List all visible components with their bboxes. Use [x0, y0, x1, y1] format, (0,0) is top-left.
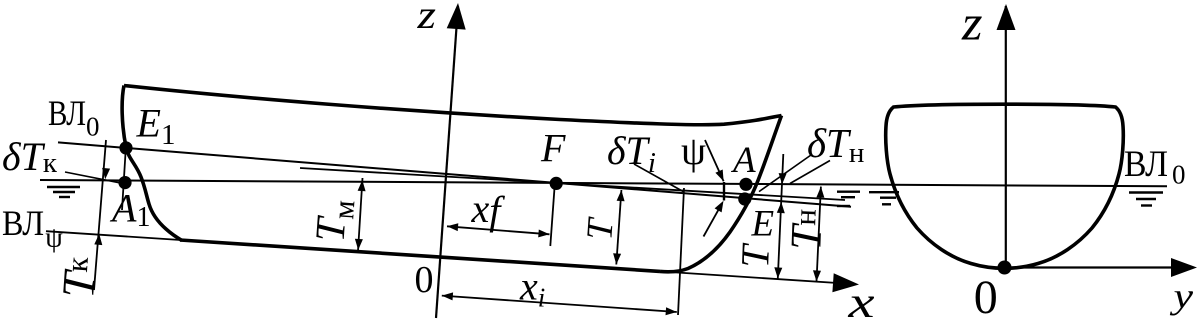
point A1: [118, 176, 131, 189]
dT_n leader 1: [759, 155, 811, 192]
svg-text:0: 0: [1172, 160, 1186, 190]
dT_k leader to A1: [65, 172, 119, 183]
x_i right arrowhead: [666, 307, 677, 315]
z axis (right): [1005, 6, 1007, 268]
x_i left arrowhead: [442, 292, 453, 300]
svg-text:A: A: [730, 140, 756, 181]
earth symbol far right: [1129, 193, 1163, 206]
x_f left arrowhead: [447, 223, 458, 231]
earth symbol left: [47, 187, 80, 197]
dT_n down arrowhead on water: [779, 173, 787, 184]
VL0 line (initial waterline through E1, F, E): [58, 142, 851, 206]
earth symbol mid-right: [869, 192, 899, 204]
angle arrow head: [715, 201, 724, 213]
svg-text:0: 0: [974, 271, 998, 320]
svg-text:0: 0: [415, 259, 434, 301]
point E: [738, 192, 751, 205]
T_n down arrowhead: [813, 270, 821, 281]
T down arrowhead: [613, 253, 621, 264]
svg-text:xf: xf: [471, 186, 506, 233]
aft perpendicular segment E1-A1: [122, 145, 126, 210]
T_m dimension line: [358, 178, 363, 251]
x axis arrowhead: [832, 273, 859, 292]
x_i dimension line: [442, 296, 677, 312]
F extension line down: [550, 188, 554, 246]
hull bow contour: [660, 116, 782, 272]
point A: [739, 178, 752, 191]
T dimension line (station i): [616, 190, 621, 265]
svg-text:ВЛ: ВЛ: [48, 93, 86, 133]
section hull outline: [886, 104, 1124, 268]
dT_n up arrowhead on VL0: [777, 202, 785, 213]
svg-text:z: z: [416, 0, 436, 37]
T bow bottom arrowhead on x axis: [774, 267, 782, 278]
svg-text:0: 0: [86, 112, 100, 142]
psi arrowhead: [715, 170, 723, 182]
psi leader: [705, 140, 724, 181]
earth symbol mid-left (end of main water line): [837, 192, 860, 206]
y axis: [1004, 266, 1173, 268]
svg-text:ψ: ψ: [45, 223, 63, 254]
svg-text:ВЛ: ВЛ: [2, 203, 44, 243]
x_f right arrowhead: [538, 230, 549, 238]
x axis / baseline (thin, full span under keel): [46, 231, 845, 283]
hull deck line: [124, 86, 782, 125]
svg-text:z: z: [961, 0, 983, 51]
x_f dimension line: [447, 226, 550, 234]
T_k up arrowhead on baseline: [94, 234, 102, 245]
svg-text:E: E: [751, 204, 775, 245]
T_m up arrowhead: [358, 180, 366, 191]
tick between waterlines at bow: [723, 182, 725, 201]
angle arrow from below: [704, 210, 719, 237]
water surface line (VL-psi actual waterline, spans both figures): [40, 180, 1167, 186]
T_n dimension line: [817, 187, 821, 282]
svg-text:F: F: [540, 126, 566, 171]
dT_n leader 2: [790, 161, 830, 184]
T_m down arrowhead: [355, 239, 363, 250]
hull keel line: [180, 240, 660, 271]
point F: [550, 177, 563, 190]
station i vertical line: [678, 188, 684, 315]
svg-text:x: x: [847, 278, 875, 320]
hull stern contour: [122, 86, 182, 241]
svg-text:ВЛ: ВЛ: [1124, 144, 1168, 185]
svg-text:ψ: ψ: [681, 128, 706, 173]
svg-text:y: y: [1170, 276, 1193, 316]
keel point dot: [998, 261, 1012, 275]
T up arrowhead: [617, 190, 625, 201]
z axis arrowhead: [447, 3, 466, 30]
T_k dimension line: [94, 140, 106, 290]
z axis arrowhead (right): [997, 4, 1016, 30]
dT_n / T dimension line at bow: [778, 154, 784, 279]
T_n up arrowhead: [816, 187, 824, 198]
y axis arrowhead: [1171, 258, 1197, 277]
z axis (main): [436, 6, 458, 318]
T_k down arrowhead on water: [102, 168, 110, 179]
dT_i leader: [634, 164, 684, 192]
second waterline (through F, lower slope): [300, 168, 845, 200]
point E1: [119, 141, 132, 154]
